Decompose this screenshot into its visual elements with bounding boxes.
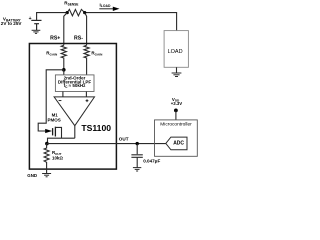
- node RS+ top (junction dot): [66, 11, 69, 14]
- wire amp output drop: [74, 126, 76, 139]
- ground (capacitor): [133, 168, 141, 171]
- battery V_BATTERY: [31, 20, 41, 30]
- ground (load): [172, 73, 182, 77]
- svg-text:LOAD: LOAD: [168, 49, 183, 55]
- resistor R_GAIN right: [84, 45, 89, 75]
- arrow I_LOAD: [99, 8, 114, 10]
- node OUT (junction dot above R_OUT): [45, 142, 49, 146]
- svg-text:fC ≈ 50kHz: fC ≈ 50kHz: [64, 83, 87, 89]
- svg-text:0.047μF: 0.047μF: [143, 159, 160, 164]
- resistor R_OUT 10k: [44, 144, 49, 174]
- svg-text:ILOAD: ILOAD: [100, 2, 111, 8]
- op-amp (triangle): [54, 97, 94, 126]
- svg-text:+3.3V: +3.3V: [171, 101, 182, 106]
- wire RS- drop: [85, 13, 87, 46]
- resistor R_SENSE: [67, 9, 85, 15]
- transistor M1 channel bar: [54, 127, 56, 137]
- svg-text:10kΩ: 10kΩ: [52, 156, 63, 161]
- wire top rail from battery to load: [37, 13, 177, 31]
- wire RS+ drop: [64, 13, 67, 46]
- transistor M1 gate bar: [52, 128, 54, 135]
- wire node A into LPF: [63, 70, 65, 75]
- svg-text:+: +: [29, 16, 32, 22]
- svg-text:RSENSE: RSENSE: [64, 1, 78, 7]
- TS1100 IC boundary box: [29, 44, 116, 170]
- arrowhead into M1 gate: [45, 129, 52, 133]
- capacitor 0.047uF: [136, 142, 139, 145]
- wire LPF to amp inputs: [63, 92, 87, 97]
- svg-text:2V to 25V: 2V to 25V: [1, 21, 23, 26]
- ground (battery): [32, 30, 41, 33]
- pin - (inverting input): [59, 100, 62, 102]
- svg-text:OUT: OUT: [119, 137, 129, 142]
- svg-text:RGAIN: RGAIN: [46, 51, 58, 57]
- filter block 2nd-Order Differential LPF: [55, 75, 94, 92]
- resistor R_GAIN left: [61, 45, 66, 70]
- svg-text:RS+: RS+: [50, 36, 60, 42]
- pin + (non-inverting input): [86, 99, 89, 102]
- supply terminal V_DD +3.3V: [174, 109, 178, 113]
- ADC block (pentagon): [166, 137, 187, 150]
- wire OUT: [47, 143, 167, 145]
- svg-text:ADC: ADC: [173, 141, 184, 147]
- svg-text:RGAIN: RGAIN: [91, 51, 103, 57]
- svg-text:TS1100: TS1100: [81, 123, 111, 133]
- wire drain rail: [48, 138, 75, 143]
- svg-text:Microcontroller: Microcontroller: [160, 122, 192, 128]
- svg-text:GND: GND: [27, 173, 37, 178]
- svg-text:PMOS: PMOS: [48, 117, 61, 122]
- ground (R_OUT / GND pin): [42, 174, 51, 177]
- microcontroller block: [155, 120, 198, 156]
- svg-text:RS-: RS-: [74, 36, 83, 42]
- wire load to ground: [176, 67, 178, 73]
- node RS- top (junction dot): [83, 11, 86, 14]
- wire node A to M1 (bracket): [38, 70, 64, 131]
- node A (R_GAIN left / LPF / M1 junction dot): [62, 68, 66, 72]
- load block: [164, 31, 188, 68]
- wire M1 source loop to amp output: [55, 127, 61, 138]
